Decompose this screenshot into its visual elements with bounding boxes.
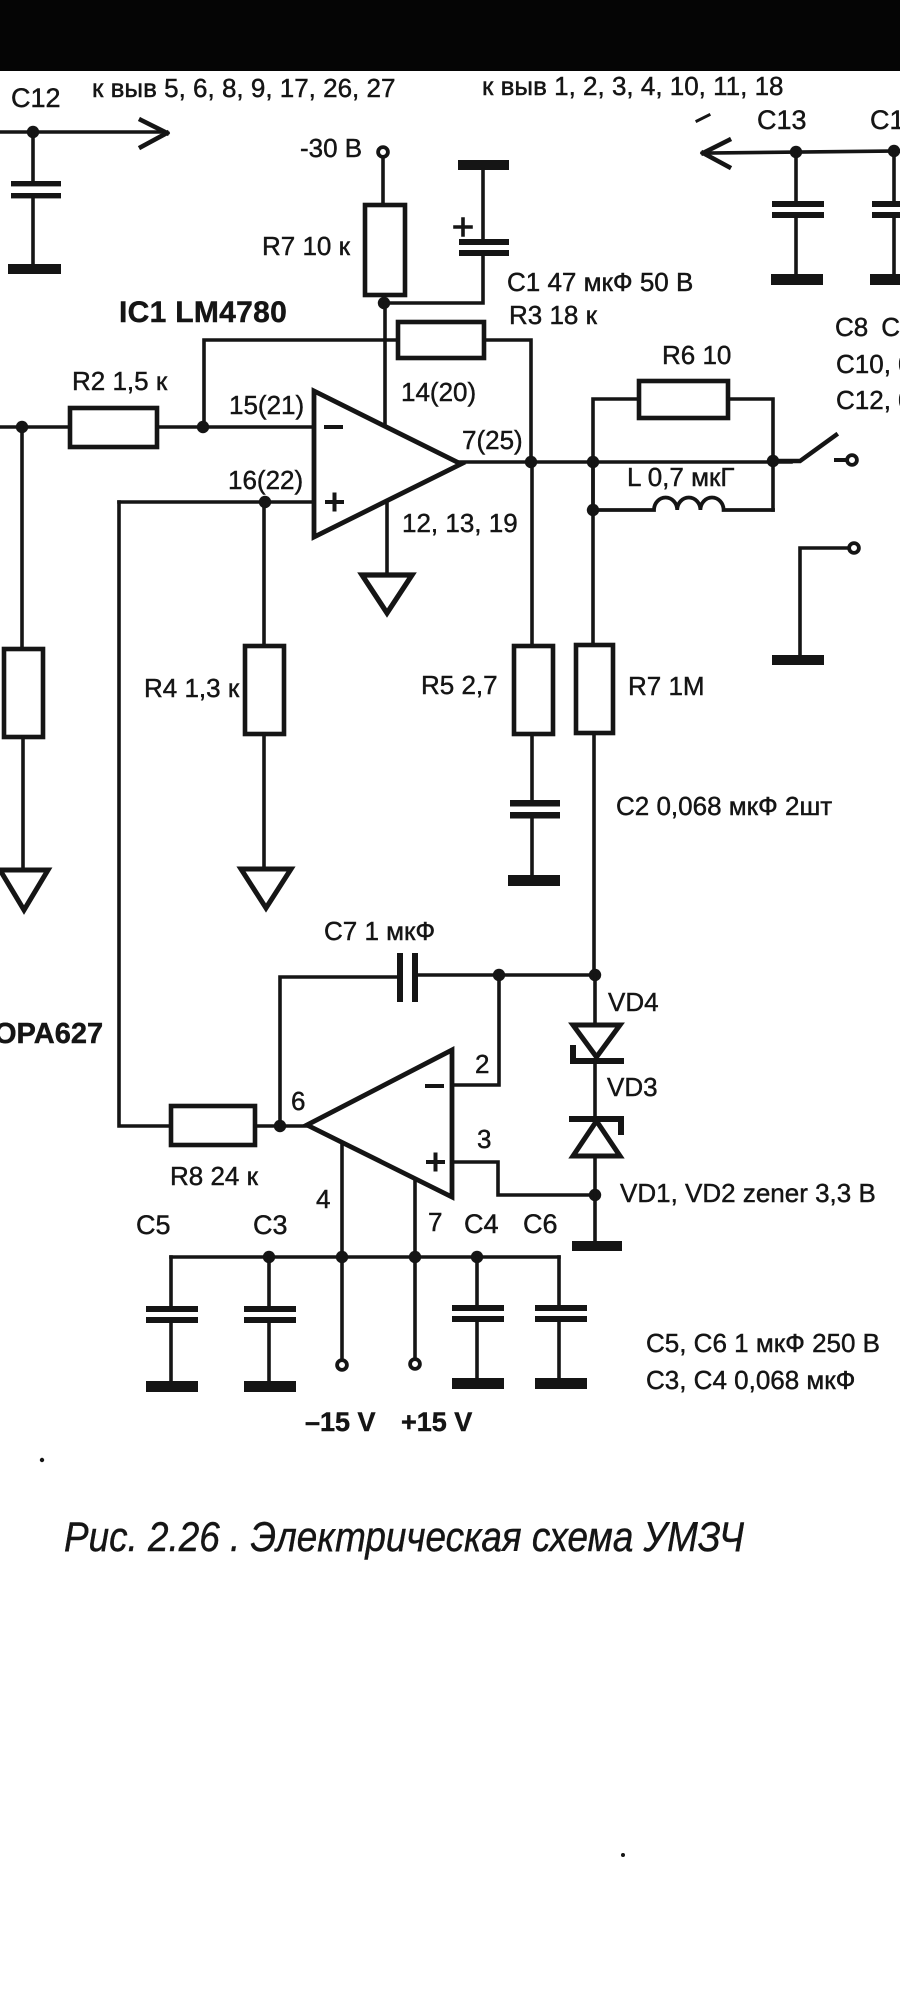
arrow head right: [141, 120, 167, 147]
svg-text:14(20): 14(20): [401, 377, 476, 407]
svg-text:C2 0,068 мкФ 2шт: C2 0,068 мкФ 2шт: [616, 791, 832, 821]
wire: R1 upper lead: [20, 427, 24, 649]
ground bar under C4: [452, 1378, 504, 1389]
wire: R6 right leg: [728, 399, 773, 510]
inductor L 0.7uH: [593, 497, 773, 510]
node: output R6 junction: [587, 456, 599, 468]
svg-text:L 0,7 мкГ: L 0,7 мкГ: [627, 462, 734, 492]
capacitor C2: [510, 800, 560, 807]
svg-text:к выв 5, 6, 8, 9, 17, 26, 27: к выв 5, 6, 8, 9, 17, 26, 27: [92, 73, 395, 103]
ground bar speaker return: [772, 655, 824, 665]
svg-text:16(22): 16(22): [228, 465, 303, 495]
svg-text:3: 3: [477, 1124, 491, 1154]
speck dot bottom: [621, 1853, 625, 1857]
svg-text:–15 V: –15 V: [305, 1407, 376, 1437]
svg-text:C6: C6: [523, 1209, 558, 1239]
svg-text:C8 C9: C8 C9: [835, 312, 900, 342]
wire: top-right rail to pins 1,2,3,4,10,11,18: [706, 151, 900, 153]
node: R4 tap on +input: [259, 496, 271, 508]
node: C13 tap: [790, 146, 802, 158]
node: pin3 zener junction: [589, 1189, 601, 1201]
node: inverting input junction: [197, 421, 209, 433]
node: output R3/R5 junction: [525, 456, 537, 468]
svg-text:Рис. 2.26 . Электрическая схем: Рис. 2.26 . Электрическая схема УМЗЧ: [64, 1513, 745, 1560]
terminal -15V: [337, 1360, 347, 1370]
capacitor C13: [794, 152, 798, 202]
svg-text:C5, C6 1 мкФ 250 В: C5, C6 1 мкФ 250 В: [646, 1328, 880, 1358]
node: zener column top junction: [589, 969, 601, 981]
wire: R2 to IC1 inverting input: [157, 425, 314, 429]
capacitor C7: [397, 953, 403, 1002]
node: pin7 rail tap: [409, 1251, 421, 1263]
wire: junction to C1 bottom: [384, 256, 483, 303]
resistor R7 1M: [576, 645, 613, 733]
capacitor C3: [267, 1257, 271, 1307]
wire: R3 right down to output: [484, 340, 531, 462]
wire: R4 upper lead: [262, 502, 266, 646]
wire: return terminal to ground: [800, 548, 848, 656]
svg-text:C3: C3: [253, 1210, 288, 1240]
ground triangle IC1: [362, 575, 412, 613]
svg-text:12, 13, 19: 12, 13, 19: [402, 508, 518, 538]
wire: C7 right to zener column: [418, 973, 595, 977]
svg-text:2: 2: [475, 1049, 489, 1079]
ground bar under C14 (clipped): [870, 274, 900, 285]
svg-text:VD1, VD2 zener 3,3 В: VD1, VD2 zener 3,3 В: [620, 1178, 876, 1208]
ground bar under C2: [508, 875, 560, 886]
wire: R7 1M down to zener node: [592, 733, 596, 975]
terminal: speaker return: [849, 543, 859, 553]
node: C3 tap: [263, 1251, 275, 1263]
svg-text:R6 10: R6 10: [662, 340, 731, 370]
node: output right junction: [767, 455, 779, 467]
OPA627 minus sign: [427, 1084, 442, 1088]
svg-text:C7 1 мкФ: C7 1 мкФ: [324, 916, 435, 946]
ground bar under C6: [535, 1378, 587, 1389]
ground bar under C12: [8, 264, 61, 274]
wire: R7 1M upper lead: [591, 462, 595, 645]
ground bar under C13: [771, 274, 823, 285]
wire: pin 7 supply: [413, 1179, 417, 1358]
switch terminal: [836, 458, 846, 462]
capacitor C1 top supply bar: [458, 160, 509, 170]
wire: long feedback loop down to R8: [119, 502, 171, 1126]
svg-text:C1: C1: [870, 105, 900, 135]
wire: zener to ground: [593, 1156, 597, 1242]
wire: R6 left leg: [593, 399, 639, 510]
capacitor C6: [557, 1257, 561, 1306]
ground triangle under R1: [0, 870, 48, 910]
svg-text:C10, 0: C10, 0: [836, 349, 900, 379]
svg-text:C13: C13: [757, 105, 807, 135]
page header black bar: [0, 0, 900, 71]
resistor R2 1.5k: [70, 408, 157, 447]
terminal +15V: [410, 1359, 420, 1369]
resistor R4 1.3k: [245, 646, 284, 734]
svg-text:C1 47 мкФ 50 В: C1 47 мкФ 50 В: [507, 267, 693, 297]
wire: IC1 output 7(25): [457, 460, 791, 464]
wire: input left segment: [0, 425, 70, 429]
node: C4 tap: [471, 1251, 483, 1263]
resistor R6 10: [639, 381, 728, 418]
node: pin4 rail tap: [336, 1251, 348, 1263]
supply rail: [171, 1255, 559, 1259]
zener VD3: [593, 1061, 597, 1119]
op-amp IC2 OPA627 triangle: [307, 1050, 452, 1197]
svg-text:R2 1,5 к: R2 1,5 к: [72, 366, 168, 396]
wire: top-left rail to pins 5,6,8,9,17,26,27: [0, 130, 160, 134]
op-amp IC1 LM4780 triangle: [314, 391, 461, 537]
svg-text:-30 В: -30 В: [300, 133, 362, 163]
svg-text:R8 24 к: R8 24 к: [170, 1161, 259, 1191]
svg-text:15(21): 15(21): [229, 390, 304, 420]
svg-text:4: 4: [316, 1184, 330, 1214]
arrow head left: [703, 140, 729, 167]
svg-text:к выв 1, 2, 3, 4, 10, 11, 18: к выв 1, 2, 3, 4, 10, 11, 18: [482, 71, 784, 101]
node: OPA627 output junction: [274, 1120, 286, 1132]
svg-text:VD3: VD3: [607, 1072, 658, 1102]
wire: IC1 ground pins 12,13,19: [385, 501, 389, 576]
svg-text:IC1 LM4780: IC1 LM4780: [119, 296, 287, 329]
zener VD4: [593, 975, 597, 1026]
capacitor C4: [475, 1257, 479, 1306]
wire: pin 4 supply: [340, 1143, 344, 1359]
svg-text:VD4: VD4: [608, 987, 659, 1017]
resistor R5 2.7: [514, 646, 553, 734]
resistor R7 10k: [365, 205, 405, 295]
resistor R8 24k: [171, 1106, 255, 1145]
svg-text:C3, C4 0,068 мкФ: C3, C4 0,068 мкФ: [646, 1365, 855, 1395]
capacitor C14 (clipped): [892, 151, 896, 202]
capacitor C12: [31, 132, 35, 183]
svg-text:R7 1М: R7 1М: [628, 671, 705, 701]
svg-text:+15 V: +15 V: [401, 1407, 472, 1437]
speck dot left: [40, 1458, 44, 1462]
tick mark: [697, 115, 709, 121]
svg-text:C12: C12: [11, 83, 61, 113]
terminal -30 V: [378, 147, 388, 157]
resistor R3 18k: [398, 322, 484, 358]
ground bar under C3: [244, 1381, 296, 1392]
wire: R8 to OPA627 output: [255, 1124, 307, 1128]
wire: R3 left to inverting node: [204, 340, 398, 427]
svg-text:6: 6: [291, 1086, 305, 1116]
capacitor C7 left leg: [280, 977, 398, 1126]
C1 plus sign: [455, 219, 471, 235]
resistor R1 (input): [4, 649, 43, 737]
node: C14 tap: [888, 145, 900, 157]
svg-text:R5 2,7: R5 2,7: [421, 670, 498, 700]
IC1 plus sign: [327, 495, 342, 510]
ground bar under C5: [146, 1381, 198, 1392]
capacitor C1: [481, 170, 485, 240]
node: pin2 tap: [493, 969, 505, 981]
IC1 minus sign: [326, 425, 341, 429]
svg-text:R3 18 к: R3 18 к: [509, 300, 598, 330]
node: C12 tap junction: [27, 126, 39, 138]
wire: R5 upper lead: [530, 462, 534, 646]
node: L left junction: [587, 504, 599, 516]
svg-text:C4: C4: [464, 1209, 499, 1239]
switch blade: [773, 435, 836, 461]
svg-text:C12, 0: C12, 0: [836, 385, 900, 415]
svg-text:R4 1,3 к: R4 1,3 к: [144, 673, 240, 703]
svg-text:OPA627: OPA627: [0, 1018, 103, 1050]
svg-text:7: 7: [428, 1207, 442, 1237]
svg-text:R7 10 к: R7 10 к: [262, 231, 351, 261]
node: R7 bottom junction: [378, 297, 390, 309]
wire: -30V to R7: [381, 158, 385, 205]
wire: pin 2 inverting input: [452, 975, 499, 1085]
capacitor C5: [169, 1257, 173, 1307]
ground triangle under R4: [241, 869, 291, 908]
wire: non-inverting input 16(22): [119, 500, 314, 504]
svg-text:C5: C5: [136, 1210, 171, 1240]
svg-text:7(25): 7(25): [462, 425, 523, 455]
ground bar zeners: [572, 1241, 622, 1251]
node: input junction: [16, 421, 28, 433]
OPA627 plus sign: [428, 1155, 443, 1170]
wire: pin 3 non-inverting input: [452, 1162, 595, 1195]
wire: mute pin 14(20): [383, 303, 387, 428]
